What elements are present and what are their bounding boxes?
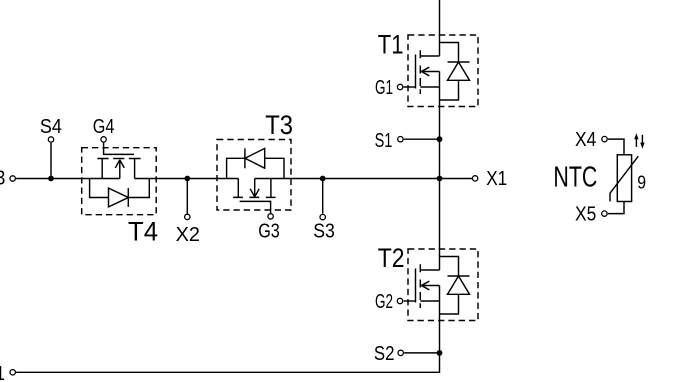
svg-text:S4: S4 [40, 116, 62, 138]
svg-text:T4: T4 [128, 216, 158, 247]
svg-text:G3: G3 [258, 221, 280, 243]
svg-text:G1: G1 [375, 77, 393, 99]
svg-text:T1: T1 [378, 29, 404, 60]
svg-text:S1: S1 [375, 130, 393, 152]
svg-text:S2: S2 [374, 343, 395, 365]
svg-text:T2: T2 [378, 242, 405, 273]
svg-text:X2: X2 [176, 224, 200, 246]
svg-text:3: 3 [0, 168, 5, 190]
svg-text:G4: G4 [93, 116, 115, 138]
svg-text:S3: S3 [313, 221, 335, 243]
svg-text:9: 9 [637, 172, 646, 192]
svg-text:X5: X5 [575, 203, 596, 225]
svg-text:X1: X1 [486, 168, 507, 190]
svg-text:1: 1 [0, 363, 5, 382]
svg-text:G2: G2 [375, 291, 393, 313]
svg-text:NTC: NTC [553, 162, 597, 194]
svg-text:T3: T3 [265, 109, 293, 140]
svg-text:X4: X4 [575, 129, 596, 151]
